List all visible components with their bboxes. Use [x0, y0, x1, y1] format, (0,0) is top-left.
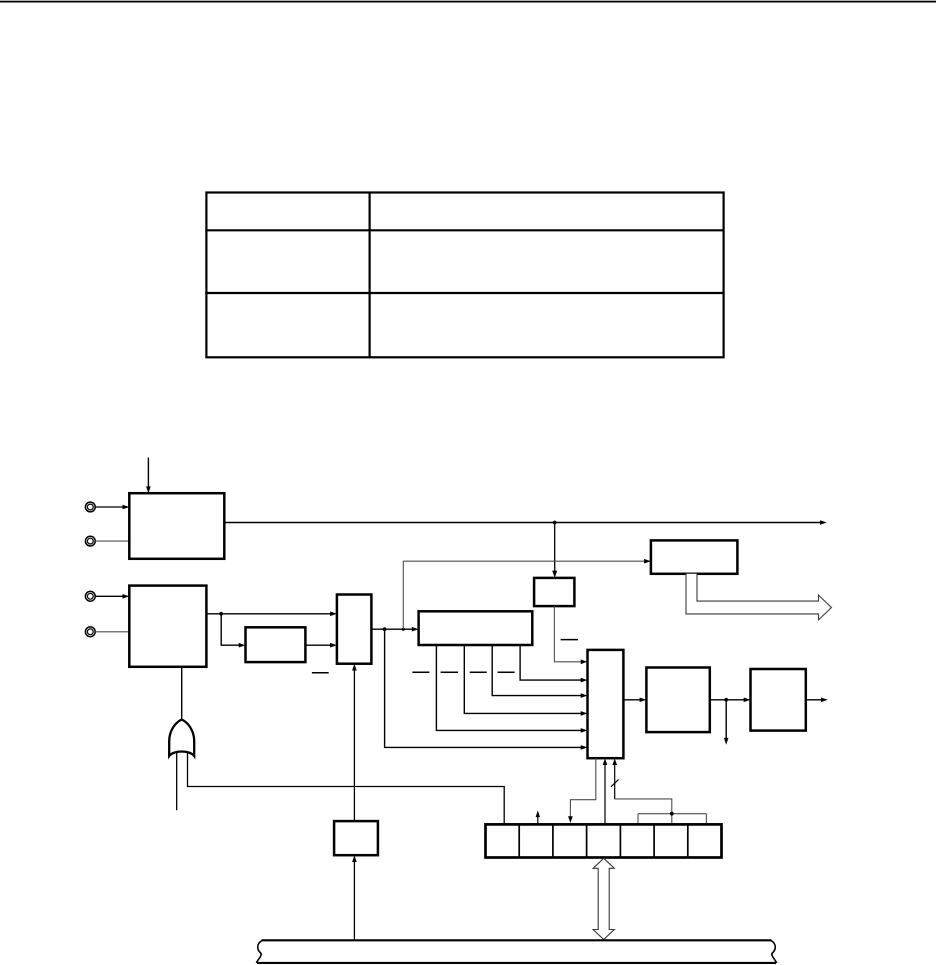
- wire: block E drop 4 into block H input 2: [520, 645, 581, 680]
- overbar label 1 under block E: [412, 671, 429, 673]
- wire: register bits 5-7 bus up into block H with width slash: [614, 765, 616, 799]
- block C: [246, 627, 306, 662]
- wire: register bit 4 read line up into block H: [604, 765, 606, 825]
- bus break right: [771, 940, 777, 963]
- block K: [334, 821, 378, 855]
- wire: block C to block D: [305, 644, 331, 646]
- wire: clock input arrow into block A top: [147, 458, 149, 488]
- bus width slash: [611, 780, 619, 787]
- junction on bit link: [670, 812, 674, 816]
- wire: P4 to block B: [95, 631, 129, 633]
- wire: block J output arrow: [806, 699, 822, 701]
- wire: block E drop 1 into block H input 5: [436, 645, 581, 730]
- junction on B-D wire: [219, 612, 223, 616]
- overbar label under C-D wire: [312, 672, 329, 674]
- register (7-bit field): [486, 824, 722, 857]
- wire: P2 to block A: [95, 540, 129, 542]
- wire: gray block F down into block H input 1: [554, 606, 581, 662]
- header rule: [0, 1, 936, 3]
- wire: register bit 3 write enable from block H (gray): [570, 758, 595, 816]
- wire: junction down and right into block H input 6: [385, 629, 582, 747]
- internal bus (bottom): [257, 940, 776, 963]
- overbar label 3 under block E: [470, 671, 487, 673]
- block H: [588, 650, 624, 758]
- block D: [337, 595, 372, 664]
- wire: block A output long bus to right edge: [224, 522, 820, 524]
- wire: block E drop 2 into block H input 4: [464, 645, 581, 713]
- wire: branch down into block C: [221, 614, 239, 645]
- wire: register bit 2 output arrow up: [537, 817, 539, 825]
- wire: block B down to or-gate: [181, 667, 183, 720]
- wire: or-gate input right from register bit 1: [188, 750, 505, 825]
- wire: P3 to block B: [95, 595, 123, 597]
- wire: block I to block J: [710, 699, 745, 701]
- hollow output arrow from block G: [686, 574, 832, 620]
- wire: or-gate input left dangling: [176, 750, 178, 811]
- block A: [129, 493, 224, 559]
- wire: P1 to block A: [95, 506, 123, 508]
- pin P4: [85, 627, 95, 637]
- pin P3: [85, 591, 95, 601]
- overbar label 4 under block E: [498, 671, 515, 673]
- block G: [651, 540, 738, 573]
- wire: gray status feed up and right into block G: [403, 561, 646, 629]
- wire: gray link from slashed line to bits 5,6,7: [615, 799, 707, 825]
- wire: block B to block D: [206, 613, 331, 615]
- wire: bus up into block K: [353, 862, 355, 940]
- wire: block H to block I: [623, 699, 640, 701]
- overbar label 2 under block E: [441, 671, 459, 673]
- pin P1: [85, 502, 95, 512]
- block F: [534, 578, 574, 606]
- block B: [129, 586, 206, 667]
- wire: block K up into block D: [353, 670, 355, 821]
- block E: [419, 611, 533, 645]
- junction on I-J wire: [724, 698, 728, 702]
- wire: bus tap down into block F: [554, 523, 556, 573]
- wire: junction down dangling arrow: [725, 700, 727, 738]
- bus break left: [256, 940, 262, 963]
- wire: block D to block E: [371, 628, 412, 630]
- hollow double arrow register to bus: [593, 858, 614, 939]
- junction on D-E wire: [383, 627, 387, 631]
- or-gate: [169, 720, 194, 757]
- junction tap for status feed: [402, 628, 405, 631]
- junction on A bus: [553, 521, 557, 525]
- block I: [646, 668, 709, 733]
- table frame: [205, 193, 723, 358]
- wire: block E drop 3 into block H input 3: [492, 645, 581, 696]
- block J: [751, 669, 806, 731]
- overbar label under block F: [561, 639, 578, 641]
- pin P2: [85, 536, 95, 546]
